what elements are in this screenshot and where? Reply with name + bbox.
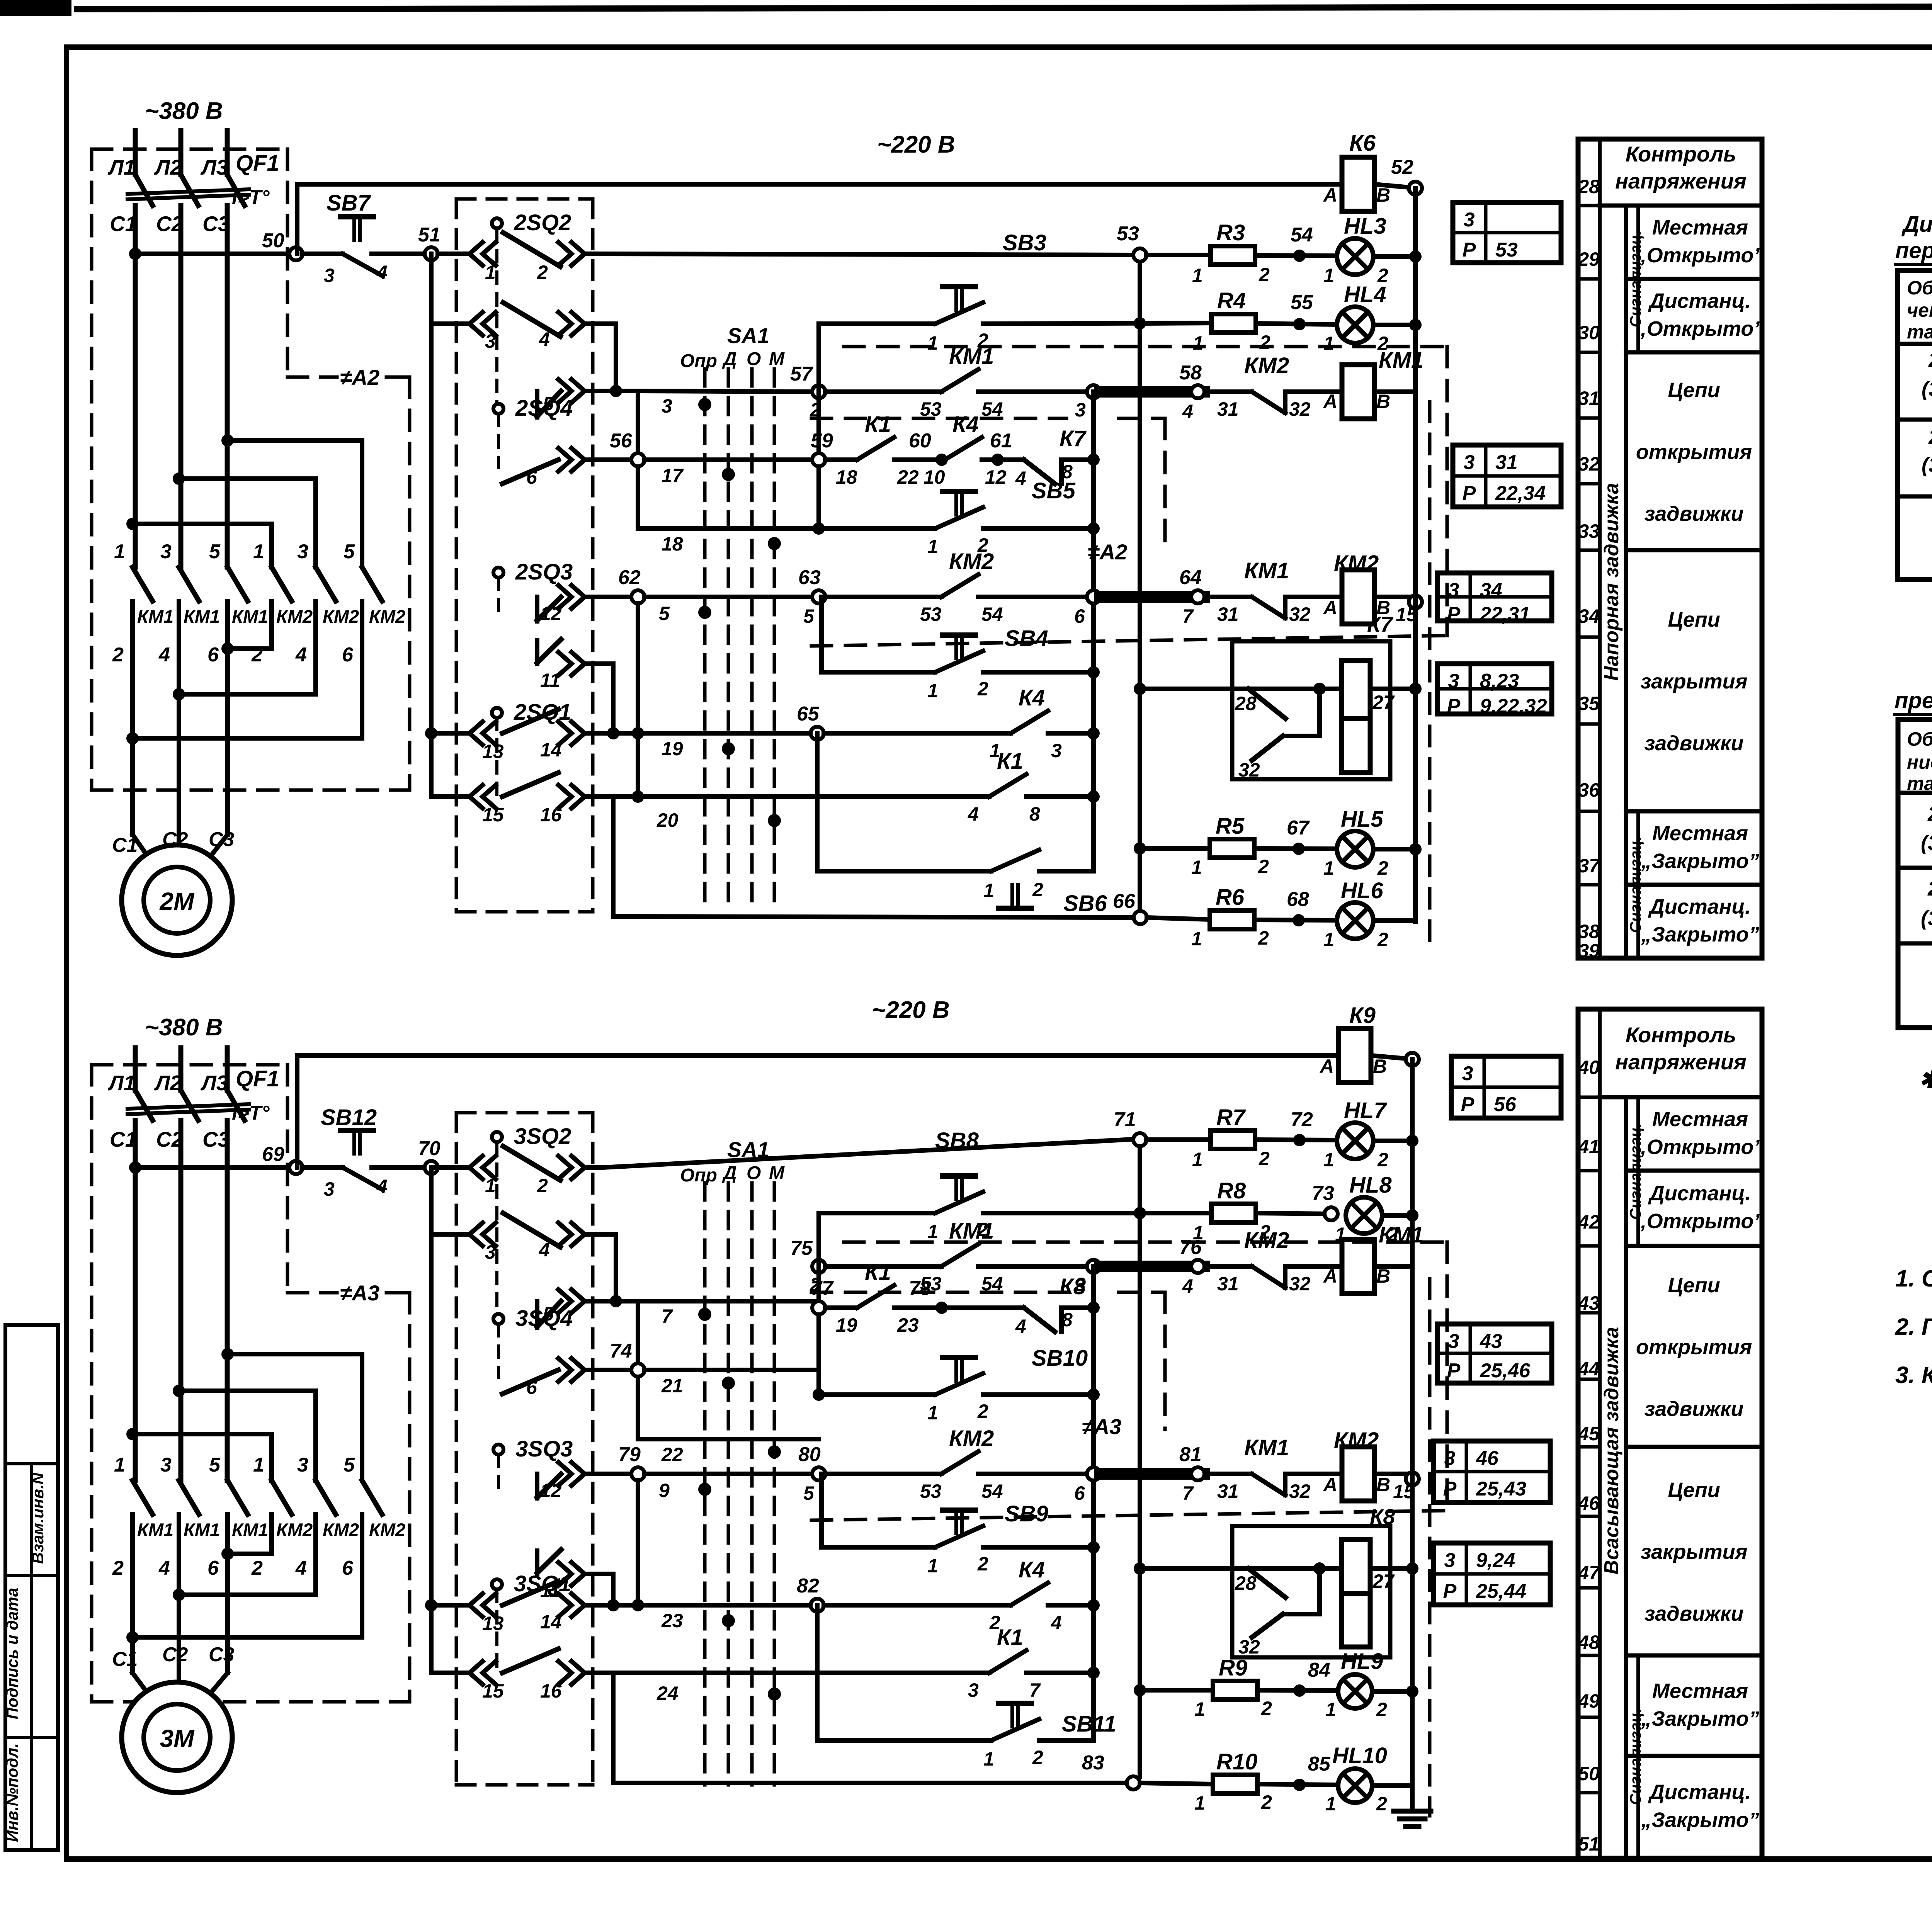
function table bottom tick 10 [1578, 1791, 1600, 1795]
limit switch 3SQ3 contact 11 anchor [535, 1551, 539, 1574]
svg-text:3: 3 [297, 1454, 308, 1476]
contact K4 holding bottom [1011, 1583, 1048, 1605]
junction node51 chain 13-14 [425, 727, 437, 739]
svg-text:42: 42 [1578, 1211, 1600, 1233]
wire node50 to SB7 [303, 252, 343, 256]
relay K7 internal vertical [1317, 689, 1322, 736]
svg-text:4: 4 [295, 644, 307, 666]
svg-text:А: А [1323, 1474, 1337, 1496]
svg-text:„Открыто”: „Открыто” [1636, 244, 1764, 267]
KM2 pole4 lower [269, 601, 274, 649]
resistor R6 [1210, 911, 1254, 929]
wire 7 to node 75 [638, 1299, 819, 1303]
breaker QF1 trip bar 2 [128, 195, 249, 199]
limit switch 2SQ3 contact 11 chevron [558, 652, 571, 675]
svg-text:18: 18 [836, 466, 857, 488]
junction pole4 C3 [221, 642, 234, 655]
2SQ4 pivot dashed [497, 414, 500, 467]
junction pole6 C1 bottom [126, 1631, 139, 1643]
KM2 pole5 lower [313, 601, 318, 694]
limit switch 2SQ1 contact 15-16 blade [502, 773, 558, 797]
svg-text:Цепи: Цепи [1668, 379, 1720, 402]
junction row11 join [607, 727, 619, 739]
svg-text:62: 62 [618, 566, 641, 589]
link C2 to KM2 pole5 bottom [179, 1388, 316, 1393]
contact KM1 main blade 1 bottom section [133, 1480, 153, 1514]
relay K8 box [1232, 1526, 1390, 1657]
terminal 15 [1409, 595, 1422, 608]
svg-text:А: А [1323, 391, 1337, 412]
svg-text:(3SQ3): (3SQ3) [1921, 907, 1932, 930]
limit switch 3SQ1 contact 13-14 blade [502, 1581, 558, 1605]
limit switch 2SQ4 contact 6 chevron [558, 448, 571, 471]
ground bar 1 [1394, 1809, 1431, 1814]
svg-text:4: 4 [295, 1557, 307, 1579]
svg-text:46: 46 [1476, 1447, 1499, 1470]
node 70 [425, 1161, 438, 1174]
svg-text:4: 4 [968, 803, 979, 825]
wire KM1 NC to coil KM2 bottom [1285, 1472, 1342, 1476]
KM1 pole3 lower to motor [225, 601, 230, 834]
svg-text:37: 37 [1578, 855, 1600, 877]
node 85 [1293, 1779, 1306, 1791]
selector SA1 closed-position dot 1824-1585 [698, 606, 711, 619]
svg-text:2: 2 [112, 1557, 124, 1579]
svg-text:Всасывающая задвижка: Всасывающая задвижка [1600, 1327, 1623, 1575]
button SB11 [991, 1703, 1039, 1740]
svg-text:56: 56 [610, 430, 633, 452]
KM1 pole2 lower to motor [177, 601, 181, 834]
function table top tick 5 [1578, 549, 1600, 552]
node 83 [1127, 1776, 1140, 1790]
svg-text:Л2: Л2 [154, 155, 182, 179]
frame top [66, 44, 1932, 50]
dashed control boundary y3345 b [1119, 1291, 1165, 1294]
3SQ2 pivot dashed [495, 1142, 498, 1319]
svg-text:С3: С3 [209, 1643, 235, 1666]
terminal box 31-2234 [1453, 445, 1561, 507]
svg-text:1: 1 [927, 680, 938, 702]
wire R4 row [1146, 323, 1211, 323]
svg-text:С1: С1 [110, 1127, 137, 1151]
device A2 dashed step a [287, 376, 337, 379]
svg-text:2: 2 [537, 1175, 548, 1196]
svg-text:4: 4 [539, 328, 550, 350]
svg-text:28: 28 [1235, 693, 1257, 714]
svg-text:QF1: QF1 [236, 151, 279, 176]
svg-text:3SQ4: 3SQ4 [515, 1306, 573, 1331]
wire coil KM2 to common bottom [1374, 1472, 1412, 1476]
svg-text:4: 4 [1182, 401, 1193, 422]
wire coil KM2 to common [1374, 595, 1415, 599]
wire row34 to elbow bottom [585, 1232, 616, 1237]
svg-text:закрытия: закрытия [1641, 1540, 1748, 1564]
junction K4 v2830 bottom [1087, 1599, 1100, 1611]
svg-text:39: 39 [1578, 940, 1600, 962]
wire row1516 right [585, 794, 613, 799]
svg-text:32: 32 [1289, 1480, 1311, 1502]
limit switch 3SQ3 pivot [493, 1445, 503, 1455]
svg-text:2: 2 [1377, 333, 1388, 354]
limit switch 2SQ2 contact 3-4 blade [503, 303, 560, 336]
phase stub L2 bottom [179, 1048, 184, 1090]
svg-text:К1: К1 [997, 749, 1023, 774]
svg-text:3: 3 [968, 1679, 979, 1701]
svg-text:задвижки: задвижки [1645, 732, 1744, 755]
svg-text:КМ1: КМ1 [137, 1519, 173, 1540]
wire elbow to node 71 [603, 1139, 1140, 1168]
switch box dashed top bottom [456, 1111, 593, 1115]
wire K1 to v2830 bottom [1026, 1671, 1094, 1675]
wire row1516 left [431, 794, 469, 799]
svg-text:68: 68 [1287, 888, 1309, 911]
dashed control boundary y3925 [811, 1511, 1447, 1520]
svg-text:HL3: HL3 [1344, 214, 1386, 239]
resistor R4 [1211, 314, 1256, 333]
selector SA1 bottom closed-position dot 2004-3758 [768, 1445, 781, 1458]
junction row1516 v1651 [632, 790, 644, 803]
svg-text:6: 6 [1074, 1482, 1085, 1504]
breaker QF1 bottom pole blade 2 [181, 1090, 198, 1120]
svg-text:КМ1: КМ1 [137, 606, 173, 627]
KM1 pole3 lower to motor bottom [225, 1514, 230, 1673]
node K9 out [1406, 1053, 1419, 1066]
device A2 dashed left [90, 149, 94, 790]
function table top block line [1626, 277, 1762, 281]
wire KM2 contact to coil bottom [1285, 1264, 1342, 1269]
node 58 [1191, 385, 1204, 398]
diagram2 heading underline [1895, 713, 1932, 716]
phase stub L3 bottom [225, 1048, 230, 1090]
wire 3SQ2 row left [431, 1165, 469, 1170]
limit switch 2SQ2 top pivot [492, 218, 502, 228]
wire K8 body to common [1370, 1566, 1412, 1571]
limit switch 3SQ1 contact 13-14 left chevron [483, 1594, 496, 1617]
junction SB3-R4 v2950 [1134, 317, 1146, 330]
selector SA1 closed-position dot 1885-1938 [722, 742, 735, 755]
limit switch 3SQ2 pivot [492, 1132, 502, 1142]
motor 2M funnel C2 [177, 834, 181, 858]
svg-text:2: 2 [537, 262, 548, 283]
wire SB5 row [819, 526, 935, 531]
svg-text:С2: С2 [156, 1127, 184, 1151]
node 72 [1293, 1134, 1306, 1146]
limit switch 3SQ4 contact 6 blade [502, 1370, 558, 1394]
button SB8 [935, 1176, 983, 1213]
wire node78 to K8 [945, 1305, 1024, 1310]
wire KM2 contact to v2830 bottom [978, 1472, 1087, 1476]
wire R7 to node 72 [1255, 1140, 1337, 1140]
wire K4 to v2830 [1048, 731, 1094, 736]
function table top block line [1626, 350, 1762, 355]
wire 7 row [585, 1299, 638, 1303]
svg-text:1. Схему управления насосом: 1. Схему управления насосом см. лист 1 [1895, 1265, 1932, 1292]
svg-text:31: 31 [1217, 1273, 1239, 1295]
junction K1 v2830 [1087, 790, 1100, 803]
svg-text:2: 2 [1258, 856, 1269, 877]
svg-text:31: 31 [1578, 387, 1600, 409]
node 75 [812, 1260, 825, 1273]
node 59 [812, 453, 825, 466]
svg-text:2SQ4: 2SQ4 [515, 396, 573, 421]
link KM2 pole6 to C1 [133, 736, 362, 741]
KM2 pole6 upper [360, 440, 364, 567]
svg-text:21: 21 [661, 1375, 683, 1397]
svg-text:2SQ3: 2SQ3 [1927, 877, 1932, 900]
diagram2 outline [1898, 719, 1932, 1028]
svg-text:переключателей 2SQ1,2SQ2,3SQ1,: переключателей 2SQ1,2SQ2,3SQ1,3SQ2 [1895, 238, 1932, 263]
limit switch 2SQ3 top pivot [493, 568, 503, 578]
svg-text:Напорная задвижка: Напорная задвижка [1600, 483, 1623, 681]
contact K1 holding bottom [989, 1650, 1026, 1673]
limit switch 2SQ2 contact 1-2 right chevron [558, 242, 571, 265]
svg-text:28: 28 [1235, 1572, 1257, 1594]
relay K7 body upper [1342, 661, 1370, 719]
contact KM2 53-54 top section [941, 574, 978, 597]
svg-text:(3SQ1): (3SQ1) [1922, 454, 1932, 477]
wire K4 to v2830 bottom [1048, 1603, 1094, 1608]
limit switch 2SQ1 contact 15-16 right chevron [558, 785, 571, 808]
KM2 pole4 lower bottom [269, 1514, 274, 1554]
svg-text:63: 63 [798, 566, 821, 589]
svg-text:6: 6 [342, 644, 354, 666]
limit switch 2SQ1 contact 15-16 left chevron [483, 785, 496, 808]
svg-text:Л1: Л1 [107, 1071, 135, 1095]
svg-text:12: 12 [540, 1480, 562, 1501]
function table bottom tick 0 [1578, 1096, 1600, 1099]
node 50 [289, 247, 303, 260]
svg-text:В: В [1376, 1474, 1390, 1496]
svg-text:(3SQ2): (3SQ2) [1922, 377, 1932, 401]
svg-text:2: 2 [1258, 927, 1269, 949]
dashed control boundary x3015 [1163, 418, 1167, 553]
svg-text:1: 1 [114, 1454, 125, 1476]
contact KM1 31-32 bottom section [1252, 1474, 1285, 1495]
svg-text:64: 64 [1179, 566, 1202, 589]
lamp HL7 [1337, 1123, 1373, 1159]
svg-text:4: 4 [376, 262, 388, 283]
wire node82 to K4 [824, 1603, 1011, 1608]
selector SA1 bottom closed-position dot 1885-4195 [722, 1614, 735, 1627]
wire row34 left [431, 321, 469, 326]
svg-text:72: 72 [1291, 1108, 1313, 1131]
svg-text:3: 3 [662, 395, 672, 417]
junction rail C1 [129, 248, 141, 260]
selector SA1 bottom closed-position dot 1824-3855 [698, 1483, 711, 1496]
terminal 6 on v2830 [1087, 590, 1100, 603]
svg-text:HL5: HL5 [1341, 807, 1383, 832]
svg-text:3: 3 [1448, 1330, 1459, 1353]
function table top tick 7 [1578, 722, 1600, 726]
wire rail C1 to node 69 [135, 1165, 296, 1170]
contact K7 elbow [1059, 460, 1064, 484]
relay K7 body lower [1342, 719, 1370, 773]
svg-text:2SQ1: 2SQ1 [1928, 426, 1932, 449]
button SB5 [935, 491, 983, 529]
2SQ2 pivot dashed [495, 229, 498, 406]
svg-text:Р: Р [1463, 482, 1476, 505]
svg-text:1: 1 [1192, 265, 1203, 286]
svg-text:чение кон-: чение кон- [1907, 299, 1932, 321]
limit switch 2SQ1 top pivot [492, 708, 502, 718]
svg-text:Р: Р [1463, 239, 1476, 261]
junction HL7 common [1406, 1135, 1418, 1147]
wire bottom rail top section [613, 916, 1134, 918]
selector SA1 bottom closed-position dot 1885-3580 [722, 1377, 735, 1390]
device A3 dashed right [408, 1293, 412, 1702]
svg-text:HL9: HL9 [1341, 1649, 1383, 1674]
diagram1 heading underline [1895, 263, 1932, 266]
wire HL9 to common [1372, 1689, 1412, 1694]
svg-text:2: 2 [1376, 1793, 1387, 1815]
svg-text:КМ1: КМ1 [1244, 1435, 1289, 1460]
svg-text:С1: С1 [112, 1648, 138, 1671]
left margin strip box [5, 1325, 58, 1850]
function table top block line [1626, 204, 1762, 208]
breaker QF1 pole blade 2 [181, 175, 198, 206]
svg-text:12: 12 [540, 603, 562, 624]
node 61 [992, 454, 1004, 466]
svg-text:4: 4 [158, 644, 170, 666]
diagram1 row line 2 [1898, 418, 1932, 422]
node 79 [631, 1467, 645, 1480]
svg-text:3: 3 [324, 265, 335, 286]
svg-text:С3: С3 [202, 1127, 230, 1151]
svg-text:С1: С1 [110, 212, 137, 236]
svg-text:КМ2: КМ2 [369, 606, 405, 627]
junction C3 link bottom [221, 1348, 234, 1360]
resistor R8 [1211, 1204, 1256, 1222]
svg-text:70: 70 [418, 1137, 440, 1160]
svg-text:22,34: 22,34 [1495, 482, 1546, 505]
svg-text:КМ2: КМ2 [949, 1426, 994, 1451]
svg-text:16: 16 [540, 1680, 562, 1702]
svg-text:13: 13 [482, 1613, 504, 1634]
node 66 [1134, 911, 1147, 924]
wire row1516 left bottom [431, 1671, 469, 1675]
svg-text:КМ2: КМ2 [276, 606, 313, 627]
function table top sig col [1636, 811, 1640, 958]
switch box dashed right bottom [591, 1113, 595, 1785]
function table top header bottom [1600, 204, 1762, 208]
svg-text:2SQ2: 2SQ2 [1928, 348, 1932, 372]
device A3 dashed top [92, 1063, 287, 1067]
svg-text:5: 5 [659, 603, 670, 624]
svg-text:5: 5 [803, 605, 815, 627]
junction pole4 C3 bottom [221, 1548, 234, 1560]
svg-text:R8: R8 [1217, 1178, 1246, 1203]
svg-text:SB9: SB9 [1005, 1501, 1048, 1526]
svg-text:8,23: 8,23 [1480, 670, 1519, 692]
svg-text:1: 1 [927, 1221, 938, 1242]
svg-text:К1: К1 [997, 1625, 1023, 1650]
wire R9 to node 84 [1257, 1690, 1337, 1691]
svg-text:51: 51 [418, 224, 440, 246]
KM1 pole1 lower to motor [130, 601, 135, 834]
wire 220V top rail [297, 182, 1342, 187]
node 68 [1293, 914, 1305, 926]
limit switch 3SQ3 contact 12 chevron [558, 1462, 571, 1485]
svg-text:59: 59 [811, 430, 833, 452]
limit switch 3SQ3 contact 12 blade [537, 1474, 561, 1497]
svg-text:HL10: HL10 [1332, 1743, 1387, 1768]
limit switch 2SQ3 contact 12 chevron [558, 585, 571, 608]
svg-text:2М: 2М [160, 887, 195, 915]
svg-text:3: 3 [485, 1241, 496, 1263]
diagram1 data bottom [1898, 495, 1932, 499]
svg-text:2SQ2: 2SQ2 [514, 210, 571, 235]
svg-text:2: 2 [1259, 331, 1270, 353]
svg-text:50: 50 [262, 229, 284, 252]
limit switch 3SQ3 contact 11 blade [537, 1550, 561, 1573]
function table bottom block line [1626, 1244, 1762, 1248]
left margin strip line3 [5, 1736, 58, 1739]
junction common K8 [1406, 1562, 1418, 1575]
relay K7 contact 28 blade [1248, 689, 1286, 719]
svg-text:54: 54 [1291, 224, 1313, 246]
svg-text:22: 22 [897, 466, 919, 488]
motor 2M funnel C3 [201, 834, 228, 868]
wire K6 to node 52 [1374, 184, 1409, 187]
wire vertical 1651 [636, 391, 640, 529]
svg-text:„Закрыто”: „Закрыто” [1641, 923, 1759, 946]
limit switch 3SQ4 pivot [493, 1314, 503, 1324]
svg-text:82: 82 [797, 1575, 819, 1597]
svg-text:2: 2 [1377, 1149, 1388, 1171]
contact KM2 31-32 bottom [1252, 1266, 1285, 1288]
limit switch 2SQ2 row left wire [438, 252, 469, 256]
KM2 pole4 upper [269, 524, 274, 567]
breaker QF1 bottom pole lower 1 [133, 1120, 138, 1480]
terminal box 46-2543 [1434, 1441, 1550, 1502]
svg-text:~380 В: ~380 В [145, 98, 223, 124]
svg-text:≠А3: ≠А3 [1082, 1414, 1121, 1439]
svg-text:Дистанц.: Дистанц. [1648, 1781, 1751, 1804]
svg-text:2: 2 [112, 644, 124, 666]
svg-text:3М: 3М [160, 1725, 195, 1752]
left margin strip line2 [5, 1574, 58, 1577]
svg-text:34: 34 [1480, 579, 1502, 602]
contact KM2 main blade 5 top section [316, 567, 336, 601]
frame left [64, 47, 69, 1859]
svg-text:Дистанц.: Дистанц. [1648, 895, 1751, 918]
wire 17 row [585, 457, 631, 462]
limit switch 3SQ4 contact 5 blade [537, 1301, 561, 1327]
svg-text:Дистанц.: Дистанц. [1648, 289, 1751, 313]
svg-text:20: 20 [656, 809, 679, 831]
node 51 [425, 247, 438, 260]
svg-text:С2: С2 [162, 1643, 188, 1666]
wire 21 row [585, 1368, 631, 1372]
svg-text:КМ1: КМ1 [232, 606, 268, 627]
limit switch 3SQ2 contact 3-4 left chevron [483, 1223, 496, 1246]
link C1 to KM2 pole4 top [133, 522, 272, 526]
motor 3M funnel C2 [177, 1673, 181, 1696]
svg-text:HL6: HL6 [1341, 878, 1383, 903]
svg-text:≠А2: ≠А2 [340, 365, 379, 389]
terminal 3 on v2830 [1087, 385, 1100, 398]
svg-text:31: 31 [1217, 398, 1239, 420]
svg-text:22: 22 [661, 1444, 683, 1465]
contact KM2 53-54 bottom section [941, 1451, 978, 1474]
svg-text:54: 54 [981, 603, 1003, 625]
svg-text:КМ2: КМ2 [369, 1519, 405, 1540]
wire node80 down [819, 1474, 824, 1547]
svg-text:48: 48 [1578, 1631, 1600, 1653]
dashed control boundary y1083 a [811, 417, 1066, 420]
3SQ4 pivot dashed [497, 1324, 500, 1378]
svg-text:16: 16 [540, 804, 562, 826]
